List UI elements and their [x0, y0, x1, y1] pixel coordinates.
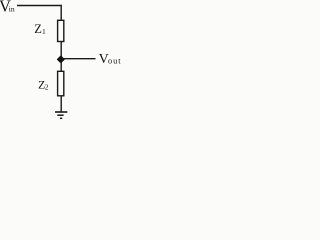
label Z2 [38, 78, 49, 92]
node junction dot [57, 56, 64, 63]
svg-text:1: 1 [42, 27, 46, 36]
label Z1 [34, 22, 46, 36]
impedance box Z2 [58, 71, 64, 96]
net label Vout [99, 52, 122, 67]
net label Vin [0, 0, 15, 15]
svg-text:in: in [9, 5, 15, 14]
wire Z1 bottom to node [60, 42, 62, 59]
ground [55, 112, 67, 118]
svg-text:Z: Z [34, 22, 42, 36]
wire node to Vout [62, 58, 96, 60]
svg-text:2: 2 [45, 82, 49, 91]
wire top horizontal from Vin to corner [17, 5, 62, 7]
svg-text:out: out [108, 57, 122, 66]
wire vertical corner down to Z1 top [60, 5, 62, 21]
wire node down to Z2 top [60, 61, 62, 72]
impedance box Z1 [58, 20, 64, 41]
wire Z2 bottom to ground [60, 96, 62, 112]
